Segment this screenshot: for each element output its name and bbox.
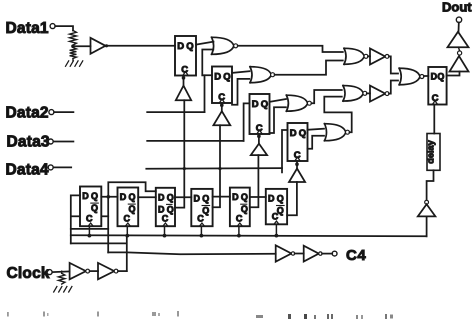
svg-text:C: C [272, 212, 279, 222]
svg-text:C: C [86, 214, 93, 224]
svg-text:Data3: Data3 [7, 133, 50, 150]
svg-text:Q: Q [223, 72, 230, 83]
svg-text:Q: Q [437, 71, 444, 81]
svg-text:Data4: Data4 [6, 162, 49, 179]
svg-text:D: D [268, 193, 275, 203]
svg-text:D: D [214, 72, 221, 83]
svg-text:Data2: Data2 [6, 105, 49, 122]
svg-text:Q: Q [241, 192, 248, 202]
svg-text:Q: Q [202, 193, 209, 203]
svg-text:Clock: Clock [7, 265, 50, 282]
svg-text:D: D [82, 191, 89, 201]
svg-text:C4: C4 [346, 247, 366, 264]
svg-text:Q: Q [167, 192, 174, 202]
svg-text:Q: Q [277, 193, 284, 203]
svg-text:delay: delay [426, 139, 436, 163]
svg-text:Q: Q [186, 41, 193, 52]
svg-text:Data1: Data1 [6, 20, 49, 37]
svg-text:D: D [194, 193, 201, 203]
svg-text:Q: Q [241, 204, 248, 214]
svg-text:D: D [252, 99, 259, 110]
svg-text:C: C [236, 214, 243, 224]
svg-text:D: D [290, 128, 297, 139]
svg-text:D: D [177, 41, 184, 52]
svg-text:C: C [197, 214, 204, 224]
svg-text:C: C [432, 93, 439, 104]
svg-text:Q: Q [299, 128, 306, 139]
svg-text:D: D [158, 192, 165, 202]
svg-text:Q: Q [261, 99, 268, 110]
svg-text:Q: Q [91, 191, 98, 201]
svg-text:Q: Q [129, 204, 136, 214]
svg-text:Q: Q [129, 192, 136, 202]
svg-text:D: D [232, 192, 239, 202]
svg-text:C: C [124, 214, 131, 224]
svg-text:D: D [120, 192, 127, 202]
svg-text:Dout: Dout [442, 0, 472, 15]
svg-text:Q: Q [91, 203, 98, 213]
